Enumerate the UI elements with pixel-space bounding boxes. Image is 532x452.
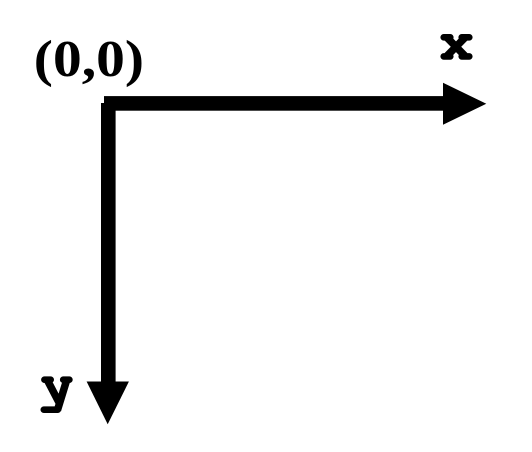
node x-axis arrowhead <box>443 83 486 125</box>
node y-axis arrowhead <box>87 382 129 425</box>
node x-axis label <box>444 37 470 56</box>
wire x-axis shaft <box>104 96 443 111</box>
wire y-axis shaft <box>101 103 116 382</box>
node y-axis label <box>44 380 70 410</box>
svg-text:(0,0): (0,0) <box>34 30 144 88</box>
